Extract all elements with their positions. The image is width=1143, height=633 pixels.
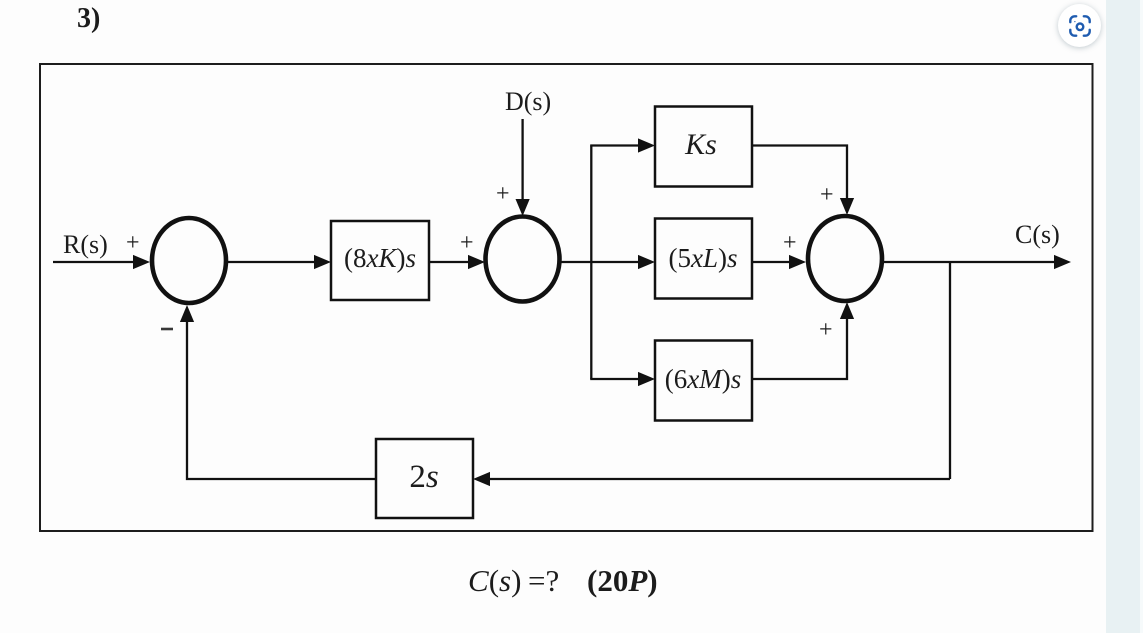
wire S1 to block G1 xyxy=(226,261,316,263)
wire branch to block Ks xyxy=(590,144,640,146)
svg-text:+: + xyxy=(783,230,797,256)
minus sign at S1 feedback input xyxy=(161,328,173,331)
right side panel strip xyxy=(1106,0,1143,633)
arrowhead into S1 xyxy=(133,255,150,269)
svg-text:+: + xyxy=(496,181,510,207)
svg-text:+: + xyxy=(126,230,140,256)
screenshot tool button (white circle) xyxy=(1058,4,1101,47)
svg-text:C(s): C(s) xyxy=(468,563,521,598)
block G3 (6xM)s xyxy=(655,341,752,421)
svg-text:3): 3) xyxy=(77,3,100,34)
svg-text:R(s): R(s) xyxy=(63,230,108,259)
summing junction S2 xyxy=(486,217,560,302)
wire S3 output to C(s) xyxy=(882,261,1056,263)
svg-text:=?: =? xyxy=(528,563,559,598)
svg-text:D(s): D(s) xyxy=(505,87,551,116)
svg-text:(6xM)s: (6xM)s xyxy=(665,364,742,394)
arrowhead into Ks xyxy=(638,138,655,152)
wire G1 to summing junction S2 xyxy=(429,261,470,263)
arrowhead into G2 xyxy=(638,255,655,269)
arrowhead into S1 bottom xyxy=(180,305,194,322)
svg-text:(8xK)s: (8xK)s xyxy=(344,243,416,273)
question formula C(s) = ? (20P) xyxy=(468,563,658,598)
arrowhead into S3 top xyxy=(840,198,854,215)
svg-text:2s: 2s xyxy=(409,459,438,495)
feedback wire from takeoff to block H 2s xyxy=(488,478,950,480)
arrowhead into 2s right side xyxy=(473,472,490,486)
svg-text:(20P): (20P) xyxy=(587,563,658,598)
block H 2s xyxy=(376,439,473,518)
wire G3 output right then up into S3 bottom xyxy=(752,317,847,379)
svg-text:(5xL)s: (5xL)s xyxy=(668,243,737,273)
svg-text:+: + xyxy=(819,317,833,343)
svg-text:Ks: Ks xyxy=(684,128,717,161)
block G2 (5xL)s xyxy=(655,219,752,299)
arrowhead into G1 xyxy=(314,255,331,269)
block G1 (8xK)s xyxy=(331,221,429,300)
wire R(s) input to summing junction S1 xyxy=(53,261,134,263)
summing junction S3 xyxy=(808,216,882,301)
summing junction S1 xyxy=(152,218,226,303)
arrowhead into S2 top xyxy=(516,199,530,216)
arrowhead into G3 xyxy=(638,372,655,386)
arrowhead into S2 left xyxy=(468,255,485,269)
wire G2 output into S3 left xyxy=(752,261,791,263)
arrowhead into S3 left xyxy=(789,255,806,269)
wire Ks output right then down into S3 top xyxy=(752,146,847,201)
diagram frame xyxy=(40,64,1093,531)
block Ks xyxy=(655,107,752,187)
wire S2 output to branch node xyxy=(559,261,591,263)
output arrowhead C(s) xyxy=(1054,255,1071,269)
wire D(s) disturbance input down into S2 xyxy=(521,119,523,201)
arrowhead into S3 bottom xyxy=(840,302,854,319)
wire branch to block G3 (6xM)s xyxy=(590,378,640,380)
svg-text:+: + xyxy=(820,182,834,208)
svg-text:+: + xyxy=(460,230,474,256)
screenshot lens icon (blue) xyxy=(1069,15,1091,37)
wire branch to block G2 (5xL)s xyxy=(591,261,640,263)
feedback wire from 2s to S1 vertical riser xyxy=(187,320,376,479)
svg-text:C(s): C(s) xyxy=(1015,220,1060,249)
branch vertical line xyxy=(590,146,592,380)
takeoff node wire down from output xyxy=(949,262,951,479)
